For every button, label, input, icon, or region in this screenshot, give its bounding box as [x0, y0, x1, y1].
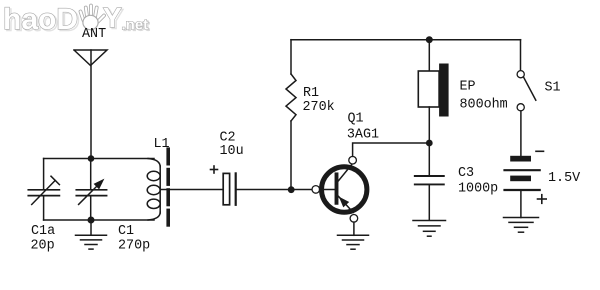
- node junction dot collector node: [426, 140, 433, 147]
- svg-text:270p: 270p: [118, 239, 150, 254]
- antenna ANT: [74, 50, 107, 66]
- node junction dot tank top: [88, 155, 95, 162]
- svg-text:haoD: haoD: [3, 3, 78, 36]
- svg-text:270k: 270k: [303, 100, 335, 115]
- battery plus mark: [538, 195, 547, 204]
- ground (tank): [76, 224, 107, 250]
- battery BT 1.5V: [505, 156, 540, 190]
- svg-text:10u: 10u: [220, 144, 244, 159]
- capacitor C2: [223, 173, 236, 204]
- earphone EP: [418, 64, 448, 117]
- battery minus mark: [536, 150, 544, 152]
- wire node to base: [295, 189, 312, 191]
- hand icon in logo: [81, 6, 105, 23]
- node junction dot top rail: [426, 36, 433, 43]
- svg-text:1000p: 1000p: [458, 182, 498, 197]
- svg-text:C3: C3: [458, 166, 474, 181]
- logo haoDIY.net watermark: [3, 2, 150, 38]
- svg-text:Q1: Q1: [348, 112, 364, 127]
- inductor L1: [147, 159, 160, 221]
- wire right rail down to switch: [520, 40, 522, 71]
- node junction dot base node: [288, 186, 295, 193]
- wire switch to battery: [520, 111, 522, 156]
- wire tank bottom: [44, 219, 154, 221]
- wire collector up: [353, 143, 426, 156]
- ground (C3): [413, 221, 446, 237]
- svg-text:C1a: C1a: [31, 224, 55, 239]
- svg-text:ANT: ANT: [82, 27, 106, 42]
- label C3 1000p: [458, 166, 498, 197]
- wire antenna mast: [90, 50, 92, 159]
- label Q1 3AG1: [347, 112, 379, 143]
- svg-text:EP: EP: [460, 80, 476, 95]
- svg-text:S1: S1: [545, 81, 561, 96]
- wire tank top: [44, 158, 154, 160]
- svg-text:C1: C1: [118, 224, 134, 239]
- resistor R1: [286, 40, 296, 187]
- capacitor C2 polarity +: [211, 166, 218, 173]
- wire C2 to node: [237, 189, 288, 191]
- label EP 800ohm: [460, 80, 508, 113]
- wire top rail: [291, 39, 521, 41]
- svg-text:R1: R1: [303, 86, 319, 101]
- label C1a 20p: [31, 224, 56, 254]
- svg-text:1.5V: 1.5V: [548, 171, 580, 186]
- wire L1 tap to C2: [160, 189, 223, 191]
- transistor Q1: [312, 156, 367, 222]
- core of L1 (dashed): [166, 149, 170, 225]
- wire battery to ground: [520, 191, 522, 218]
- svg-text:800ohm: 800ohm: [460, 98, 508, 113]
- label R1 270k: [303, 86, 335, 115]
- svg-text:20p: 20p: [31, 239, 55, 254]
- svg-text:.net: .net: [122, 17, 149, 34]
- wire EP bottom: [428, 107, 430, 140]
- ground (emitter): [338, 222, 369, 249]
- svg-text:3AG1: 3AG1: [347, 128, 379, 143]
- capacitor C1a (trimmer): [28, 159, 59, 221]
- wire EP top: [428, 43, 430, 71]
- switch S1: [517, 71, 536, 111]
- capacitor C3: [415, 146, 444, 219]
- ground (battery): [504, 218, 539, 233]
- label C1 270p: [118, 224, 150, 254]
- capacitor C1 (variable): [76, 159, 106, 221]
- label C2 10u: [220, 131, 244, 160]
- node junction dot tank bottom: [88, 217, 95, 224]
